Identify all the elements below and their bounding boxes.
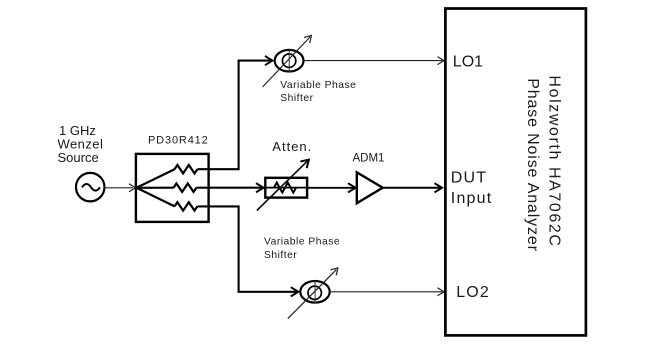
- svg-text:Variable Phase: Variable Phase: [280, 80, 356, 91]
- svg-text:LO1: LO1: [453, 53, 483, 70]
- svg-text:Phase Noise Analyzer: Phase Noise Analyzer: [524, 78, 541, 252]
- svg-text:ADM1: ADM1: [353, 153, 385, 165]
- svg-text:Shifter: Shifter: [280, 93, 313, 104]
- svg-text:LO2: LO2: [456, 284, 490, 301]
- svg-text:Input: Input: [451, 190, 493, 207]
- svg-text:Atten.: Atten.: [272, 139, 312, 154]
- svg-text:PD30R412: PD30R412: [148, 135, 209, 147]
- svg-text:DUT: DUT: [451, 170, 487, 187]
- svg-text:Source: Source: [58, 150, 99, 165]
- svg-text:Holzworth HA7062C: Holzworth HA7062C: [546, 75, 563, 247]
- svg-text:Variable Phase: Variable Phase: [264, 237, 340, 248]
- svg-text:Shifter: Shifter: [264, 250, 297, 261]
